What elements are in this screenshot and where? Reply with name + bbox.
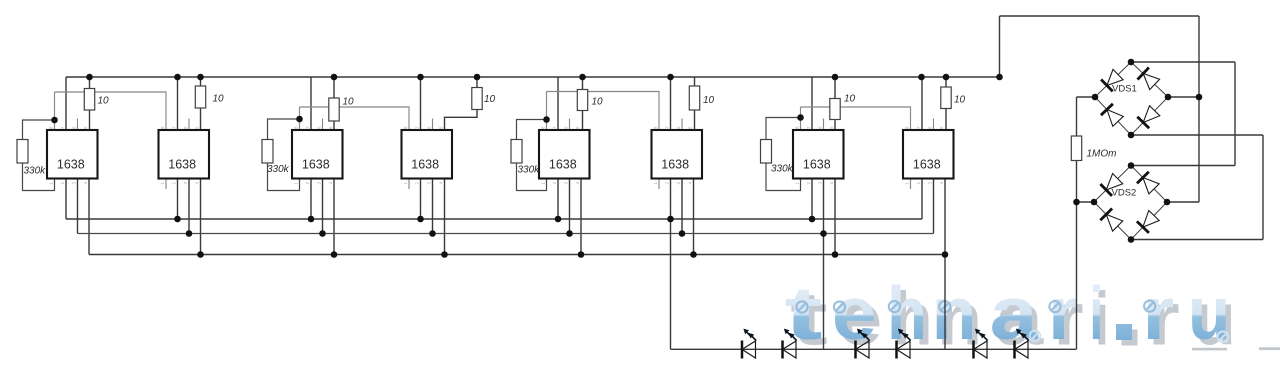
wire R10-7 bottom lead [834, 120, 836, 131]
wire VDS2 top node link [1131, 165, 1235, 167]
watermark no-entry icons [796, 301, 1155, 313]
wire IC2 pin7 riser to top bus [177, 77, 179, 130]
wire bridge bottom link column [1262, 135, 1264, 240]
svg-text:VDS1: VDS1 [1112, 84, 1137, 95]
junction on top bus #10 [918, 74, 925, 81]
wire IC3 pin3 drop to bus2 [322, 179, 324, 234]
junction on bus2 #4 [566, 230, 573, 237]
diode VDS2.3 [1106, 214, 1123, 231]
wire pair4 pin8 riser (left IC) [800, 107, 802, 130]
wire R10-1 bottom lead [89, 110, 91, 130]
svg-text:i: i [1089, 271, 1103, 355]
svg-text:10: 10 [343, 97, 355, 108]
wire pair2 pin8 interconnect [300, 107, 410, 130]
op-amp/IC U6 1638 [652, 130, 703, 179]
IC U6 pin numbers [653, 126, 693, 185]
wire 330k-1 bottom loop [23, 163, 55, 191]
wire 330k-1 top lead [23, 120, 55, 140]
IC U5 pin numbers [540, 126, 580, 185]
node VDS1 left [1092, 94, 1099, 101]
wire IC4 pin2 drop to bus1 [420, 179, 422, 220]
op-amp/IC U8 1638 [903, 130, 954, 179]
svg-text:10: 10 [592, 97, 604, 108]
IC U8 pin numbers [904, 126, 944, 185]
op-amp/IC U2 1638 [159, 130, 210, 179]
node VDS2-right column tap [1196, 94, 1203, 101]
wire VDS1 edge top-right [1131, 62, 1168, 97]
resistor R10-7 value 10 [830, 99, 840, 120]
wire 330k-2 top lead [268, 119, 300, 140]
watermark second tile shadow dashes [1192, 348, 1227, 351]
svg-text:1638: 1638 [168, 158, 196, 172]
wire VDS1 top node link right [1131, 61, 1235, 63]
junction on top bus #11 [943, 74, 950, 81]
wire IC1 pin3 drop to bus2 [77, 179, 79, 234]
svg-text:1638: 1638 [302, 158, 330, 172]
diode VDS1.3 [1107, 110, 1123, 127]
wire IC6 pin4 drop to bus3 [693, 179, 695, 255]
wire bottom bus 2 [78, 233, 934, 235]
diode VDS1.1 [1107, 69, 1123, 85]
junction on top bus #6 [474, 74, 481, 81]
wire IC4 pin7 riser to top bus [420, 77, 422, 130]
wire IC1 pin4 drop to bus3 [88, 179, 90, 255]
junction on bus1 #3 [417, 216, 424, 223]
wire pair2 pin8 riser (left IC) [299, 107, 301, 130]
junction pin8 node pair2 [296, 116, 303, 123]
wire IC3 pin6 stub [322, 119, 324, 131]
wire R10-2 top lead [200, 77, 202, 86]
junction on bus1 #5 [667, 216, 674, 223]
node 1MOm/VDS2-left/LED junction [1073, 199, 1080, 206]
op-amp/IC U1 1638 [47, 130, 98, 179]
junction on top bus #1 [86, 74, 93, 81]
wire VDS1 right node tap [1168, 96, 1199, 98]
junction on top bus #8 [667, 74, 674, 81]
node VDS2 bottom [1128, 236, 1135, 243]
resistor R330k-1 value 330k [17, 140, 28, 164]
junction on top bus #9 [832, 74, 839, 81]
LED D3 [854, 341, 857, 359]
diode VDS2.4 [1143, 211, 1159, 228]
wire IC8 pin4 riser down to LED row [944, 255, 946, 350]
resistor R330k-3 value 330k [511, 140, 522, 164]
wire IC7 pin3 drop to bus2 [823, 179, 825, 234]
wire R10-6 top lead [694, 77, 696, 86]
resistor R330k-4 value 330k [761, 140, 772, 164]
wire pair3 pin8 riser (left IC) [546, 92, 548, 131]
wire IC6 pin2 riser down to LED row [670, 219, 672, 349]
wire VDS1 bottom node link right [1131, 134, 1263, 136]
diode VDS1.2 [1143, 74, 1159, 90]
junction on bus1 #6 [809, 216, 816, 223]
junction on bus3 #4 [578, 251, 585, 258]
junction on bus1 #2 [308, 216, 315, 223]
wire VDS1 left node to 1MOm column [1077, 96, 1096, 98]
wire 330k-4 top lead [766, 118, 801, 140]
wire VDS2 bottom node link [1131, 239, 1263, 241]
wire IC7 pin2 drop to bus1 [811, 179, 813, 220]
wire IC1 pin7 riser to top bus [65, 77, 67, 130]
wire VDS2 edge left-bottom [1094, 202, 1131, 240]
LED D4 [895, 341, 898, 359]
wire VDS1 edge bottom-right [1131, 97, 1168, 135]
wire top bus riser to upper rail [999, 16, 1001, 77]
wire IC3 pin7 riser to top bus [310, 77, 312, 130]
wire IC2 pin6 stub [188, 119, 190, 131]
resistor R10-5 value 10 [577, 90, 587, 111]
svg-text:VDS2: VDS2 [1112, 188, 1137, 199]
wire R10-2 bottom lead [200, 108, 202, 130]
svg-text:10: 10 [484, 94, 496, 105]
svg-text:10: 10 [703, 95, 715, 106]
wire IC5 pin4 drop to bus3 [580, 179, 582, 255]
node VDS2 left [1091, 199, 1098, 206]
wire 330k-3 bottom loop [517, 163, 547, 191]
wire pair1 pin8 riser (left IC) [54, 92, 56, 130]
svg-text:330k: 330k [24, 166, 47, 177]
op-amp/IC U7 1638 [793, 130, 844, 179]
svg-text:330k: 330k [267, 164, 290, 175]
wire R10-6 bottom lead [694, 110, 696, 130]
wire bottom bus 1 [66, 218, 922, 220]
junction on bus2 #3 [429, 230, 436, 237]
wire 1MOm bottom lead [1076, 161, 1078, 203]
op-amp/IC U4 1638 [402, 130, 453, 179]
svg-text:r: r [1048, 271, 1078, 355]
wire IC6 pin1 bottom stub [658, 179, 660, 190]
wire IC8 pin1 bottom stub [910, 179, 912, 190]
resistor R10-2 value 10 [195, 86, 205, 108]
resistor R10-1 value 10 [84, 89, 94, 111]
wire R10-7 top lead [834, 77, 836, 99]
wire IC8 pin4 drop to bus3 [944, 179, 946, 255]
wire IC8 pin3 drop to bus2 [933, 179, 935, 234]
junction on top bus #7 [579, 74, 586, 81]
wire 1MOm top lead [1076, 97, 1078, 136]
svg-text:1638: 1638 [411, 158, 439, 172]
resistor R10-3 value 10 [329, 98, 339, 121]
wire LED string row [671, 348, 1077, 350]
wire R10-4 bottom lead jog [445, 110, 478, 131]
wire IC5 pin2 drop to bus1 [557, 179, 559, 220]
wire VDS2 edge top-right [1131, 166, 1167, 203]
wire IC3 pin4 drop to bus3 [333, 179, 335, 255]
junction on bus2 #1 [186, 230, 193, 237]
junction on bus3 #6 [832, 251, 839, 258]
wire R10-5 top lead [582, 77, 584, 90]
junction on top bus #2 [174, 74, 181, 81]
wire R10-1 top lead [89, 77, 91, 89]
wire IC4 pin1 bottom stub [408, 179, 410, 190]
junction on bus3 #3 [441, 251, 448, 258]
LED D5 [972, 341, 975, 359]
svg-text:1MOm: 1MOm [1087, 149, 1117, 160]
svg-text:1638: 1638 [549, 158, 577, 172]
junction on top bus #3 [197, 74, 204, 81]
LED D2 [781, 341, 784, 359]
diode VDS2.2 [1143, 178, 1159, 194]
op-amp/IC U5 1638 [539, 130, 590, 179]
wire R10-5 bottom lead [582, 111, 584, 131]
wire upper rail [1000, 15, 1200, 17]
wire IC8 pin2 drop to bus1 [921, 179, 923, 220]
svg-text:10: 10 [844, 94, 856, 105]
junction on bus1 #4 [555, 216, 562, 223]
junction on bus3 #5 [690, 251, 697, 258]
IC U3 pin numbers [293, 126, 333, 185]
wire IC8 pin7 riser to top bus [921, 77, 923, 130]
wire R10-8 top lead [945, 77, 947, 87]
junction on bus2 #6 [820, 230, 827, 237]
wire IC2 pin3 drop to bus2 [188, 179, 190, 234]
wire 330k-4 bottom loop [766, 163, 801, 191]
wire IC6 pin6 stub [681, 119, 683, 131]
wire IC5 pin6 stub [569, 119, 571, 131]
svg-text:r: r [1142, 271, 1174, 355]
svg-text:1638: 1638 [57, 158, 85, 172]
resistor R-1MOm value 1MOm [1071, 136, 1081, 161]
node VDS1 bottom [1128, 132, 1135, 139]
wire IC5 pin7 riser to top bus [557, 77, 559, 130]
diode VDS2.1 [1106, 174, 1123, 191]
wire LED string right end riser [1076, 202, 1078, 349]
resistor R10-8 value 10 [941, 87, 951, 109]
op-amp/IC U3 1638 [292, 130, 343, 179]
wire IC5 pin3 drop to bus2 [569, 179, 571, 234]
wire VDS2 edge left-top [1094, 166, 1131, 203]
wire IC4 pin6 stub [432, 119, 434, 131]
junction on bus1 #1 [174, 216, 181, 223]
wire 330k-3 top lead [517, 120, 547, 140]
wire IC6 pin7 riser to top bus [670, 77, 672, 130]
svg-text:10: 10 [213, 94, 225, 105]
IC U4 pin numbers [403, 126, 444, 185]
wire IC6 pin3 drop to bus2 [681, 179, 683, 234]
junction on top bus #12 [996, 74, 1003, 81]
wire pair1 pin8 interconnect [55, 92, 167, 130]
wire IC7 pin4 drop to bus3 [834, 179, 836, 255]
junction on bus3 #7 [942, 251, 949, 258]
wire IC7 pin7 riser to top bus [811, 77, 813, 130]
wire IC1 pin6 stub [77, 119, 79, 131]
wire IC7 pin3 riser down to LED row [823, 234, 825, 350]
junction on bus2 #2 [319, 230, 326, 237]
wire IC8 pin6 stub [933, 119, 935, 131]
LED D6 [1013, 341, 1016, 359]
wire 330k-2 bottom loop [268, 163, 300, 191]
wire IC1 pin2 drop to bus1 [65, 179, 67, 220]
resistor R330k-2 value 330k [262, 140, 273, 164]
IC U2 pin numbers [160, 126, 200, 185]
junction pin8 node pair3 [543, 116, 550, 123]
wire IC2 pin4 drop to bus3 [200, 179, 202, 255]
wire R10-3 bottom lead [333, 121, 335, 130]
svg-text:10: 10 [954, 95, 966, 106]
wire junction to VDS2 left node [1077, 201, 1095, 203]
wire IC3 pin2 drop to bus1 [310, 179, 312, 220]
wire pair3 pin8 interconnect [547, 92, 660, 131]
junction pin8 node pair4 [797, 114, 804, 121]
wire R10-8 bottom lead [945, 109, 947, 131]
diode VDS1.4 [1143, 106, 1160, 123]
junction on bus2 #5 [679, 230, 686, 237]
wire bottom bus 3 [89, 254, 945, 256]
junction on top bus #5 [417, 74, 424, 81]
node VDS2 right [1164, 199, 1171, 206]
wire R10-4 top lead [476, 77, 478, 88]
wire VDS1 edge left-bottom [1095, 97, 1131, 135]
junction pin8 node pair1 [51, 117, 58, 124]
resistor R10-6 value 10 [689, 86, 699, 110]
wire top supply bus [66, 76, 1000, 78]
svg-text:10: 10 [98, 96, 110, 107]
junction on bus3 #2 [331, 251, 338, 258]
wire IC2 pin1 bottom stub [165, 179, 167, 190]
wire bridge top link column [1234, 62, 1236, 166]
svg-text:330k: 330k [771, 164, 794, 175]
junction on bus3 #1 [197, 251, 204, 258]
resistor R10-4 value 10 [472, 88, 482, 110]
svg-text:330k: 330k [518, 165, 541, 176]
wire IC7 pin6 stub [823, 119, 825, 131]
wire right column down [1198, 16, 1200, 202]
IC U1 pin numbers [48, 126, 88, 185]
LED D1 [741, 341, 744, 359]
junction on top bus #4 [331, 74, 338, 81]
node VDS1 top [1128, 59, 1135, 66]
wire right column to VDS2 right node [1167, 201, 1199, 203]
wire IC2 pin2 drop to bus1 [177, 179, 179, 220]
wire pair4 pin8 interconnect [801, 107, 911, 130]
svg-text:1638: 1638 [913, 158, 941, 172]
wire IC6 pin2 drop to bus1 [670, 179, 672, 220]
wire VDS1 edge left-top [1095, 62, 1131, 97]
svg-text:n: n [932, 271, 977, 355]
svg-text:1638: 1638 [803, 158, 831, 172]
wire IC4 pin4 drop to bus3 [444, 179, 446, 255]
IC U7 pin numbers [794, 126, 834, 185]
wire IC4 pin3 drop to bus2 [432, 179, 434, 234]
svg-text:1638: 1638 [661, 158, 689, 172]
node VDS1 right [1165, 94, 1172, 101]
wire VDS2 edge bottom-right [1131, 202, 1167, 240]
wire R10-3 top lead [333, 77, 335, 98]
node VDS2 top [1128, 162, 1135, 169]
